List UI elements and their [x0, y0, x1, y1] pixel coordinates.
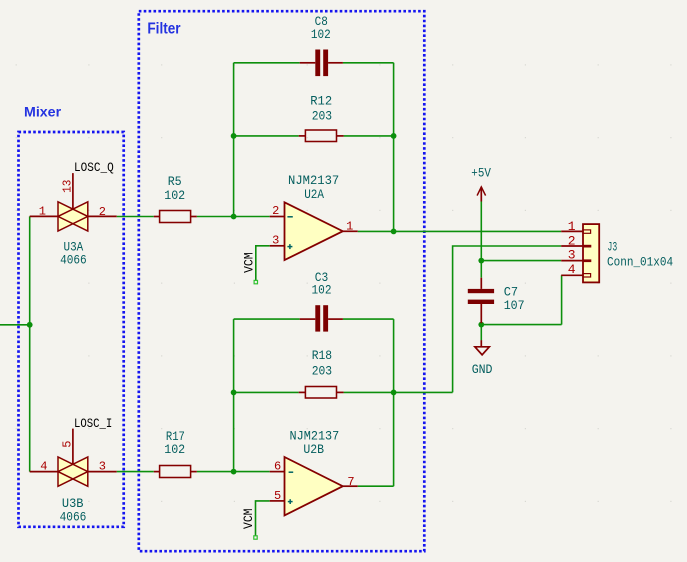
- svg-text:R12: R12: [310, 94, 332, 109]
- svg-text:7: 7: [347, 475, 354, 489]
- svg-text:4066: 4066: [60, 510, 87, 525]
- svg-text:NJM2137: NJM2137: [288, 173, 339, 188]
- svg-text:VCM: VCM: [241, 252, 256, 272]
- svg-text:GND: GND: [472, 362, 493, 377]
- svg-text:4: 4: [40, 460, 47, 474]
- svg-text:102: 102: [312, 282, 332, 297]
- svg-text:1: 1: [568, 219, 576, 234]
- svg-text:102: 102: [164, 188, 185, 203]
- svg-text:3: 3: [568, 248, 576, 263]
- svg-text:Mixer: Mixer: [24, 104, 62, 120]
- svg-text:2: 2: [568, 233, 576, 248]
- svg-text:LOSC_I: LOSC_I: [74, 416, 112, 431]
- svg-text:C7: C7: [504, 284, 518, 299]
- svg-text:Filter: Filter: [147, 20, 180, 37]
- svg-text:5: 5: [61, 440, 75, 447]
- svg-text:13: 13: [61, 180, 75, 193]
- svg-text:NJM2137: NJM2137: [290, 428, 340, 443]
- svg-text:102: 102: [164, 442, 185, 457]
- svg-text:4066: 4066: [60, 252, 87, 267]
- svg-text:2: 2: [272, 204, 279, 218]
- svg-text:1: 1: [39, 205, 46, 219]
- svg-text:R18: R18: [312, 348, 332, 363]
- svg-text:3: 3: [99, 460, 106, 474]
- svg-text:4: 4: [568, 262, 576, 277]
- svg-text:203: 203: [312, 108, 332, 123]
- svg-text:203: 203: [312, 364, 332, 379]
- svg-text:LOSC_Q: LOSC_Q: [74, 160, 114, 175]
- svg-text:6: 6: [274, 459, 281, 473]
- svg-text:107: 107: [504, 298, 525, 313]
- svg-text:U2A: U2A: [304, 187, 324, 202]
- svg-text:U2B: U2B: [303, 442, 324, 457]
- svg-text:3: 3: [272, 233, 279, 247]
- svg-text:Conn_01x04: Conn_01x04: [607, 254, 673, 269]
- svg-text:102: 102: [311, 27, 331, 42]
- svg-text:VCM: VCM: [241, 509, 256, 530]
- svg-text:5: 5: [274, 489, 281, 503]
- svg-text:2: 2: [99, 205, 106, 219]
- svg-text:1: 1: [346, 219, 353, 233]
- svg-text:+5V: +5V: [471, 166, 491, 181]
- svg-text:J3: J3: [608, 239, 618, 254]
- svg-text:R5: R5: [168, 174, 182, 189]
